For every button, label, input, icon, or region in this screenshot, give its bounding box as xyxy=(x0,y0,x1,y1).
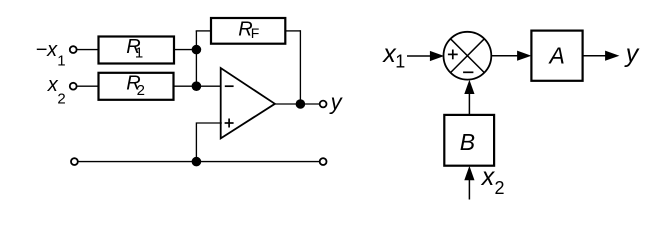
node bottom rail junction xyxy=(192,157,202,167)
arrowhead to y xyxy=(605,51,619,61)
svg-text:1: 1 xyxy=(135,44,143,61)
terminal y xyxy=(320,101,327,108)
op-amp U1 xyxy=(221,68,275,138)
label x1 (right) xyxy=(382,40,405,71)
svg-text:y: y xyxy=(329,89,344,114)
node junction R2 output xyxy=(192,81,202,91)
arrowhead B into summer xyxy=(464,80,474,94)
resistor RF xyxy=(211,18,285,44)
terminal x2 xyxy=(70,83,77,90)
wire op-amp output xyxy=(275,103,320,105)
summing junction S1 xyxy=(444,32,492,80)
wire bottom rail xyxy=(78,161,320,163)
svg-text:y: y xyxy=(624,40,640,68)
arrowhead x1 into summer xyxy=(430,51,444,61)
wire feedback vertical xyxy=(299,30,301,104)
svg-text:x: x xyxy=(481,163,496,191)
wire summer to A xyxy=(491,55,519,57)
wire R2 to op-amp inverting input xyxy=(174,85,222,87)
svg-text:B: B xyxy=(460,129,475,155)
wire RF right to feedback drop xyxy=(285,30,300,32)
resistor R2 xyxy=(99,73,174,100)
wire node to RF left xyxy=(196,30,211,32)
wire B to summer xyxy=(468,93,470,115)
wire x1 to summer xyxy=(407,55,432,57)
wire R1 to node xyxy=(174,49,196,51)
svg-text:F: F xyxy=(251,25,260,41)
label -x1 xyxy=(36,39,66,69)
wire x2 terminal to R2 xyxy=(77,85,99,87)
node junction R1 output xyxy=(192,45,202,55)
wire op-amp noninverting input xyxy=(196,123,221,162)
svg-text:2: 2 xyxy=(137,82,145,99)
wire A to y xyxy=(583,55,607,57)
svg-text:2: 2 xyxy=(57,91,65,108)
arrowhead into A xyxy=(517,51,531,61)
node output/feedback junction xyxy=(296,99,306,109)
wire vertical bus to RF xyxy=(195,31,197,86)
block B xyxy=(444,115,494,166)
svg-text:2: 2 xyxy=(495,178,505,198)
wire x1 terminal to R1 xyxy=(77,49,99,51)
svg-text:1: 1 xyxy=(57,53,65,70)
terminal bottom-right xyxy=(320,158,327,165)
svg-text:1: 1 xyxy=(395,52,405,72)
block A xyxy=(531,31,582,81)
label x2 xyxy=(47,74,66,108)
terminal x1 xyxy=(70,46,77,53)
terminal bottom-left xyxy=(71,158,78,165)
label x2 (right) xyxy=(481,163,505,198)
svg-text:−x: −x xyxy=(36,39,59,61)
wire x2 input to B xyxy=(468,180,470,200)
svg-text:A: A xyxy=(548,42,565,68)
arrowhead x2 into B xyxy=(464,166,474,180)
resistor R1 xyxy=(99,36,175,63)
